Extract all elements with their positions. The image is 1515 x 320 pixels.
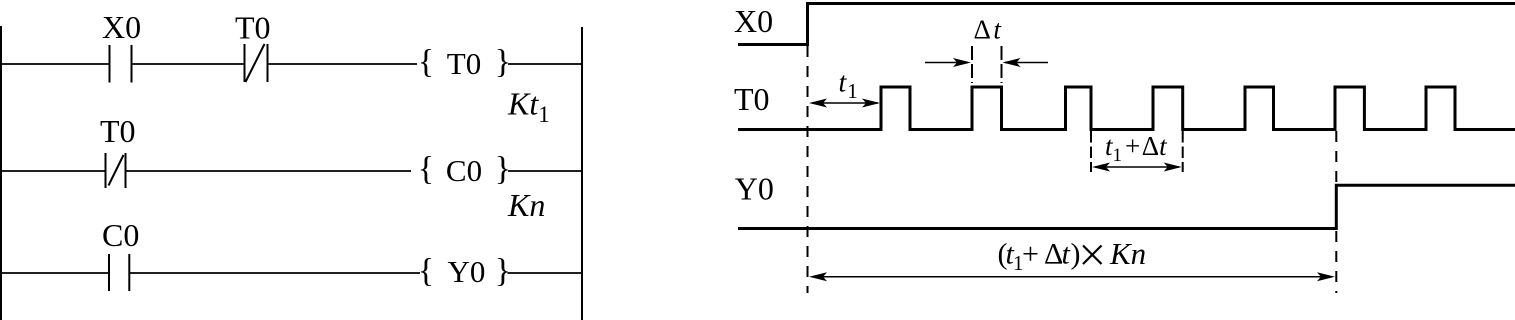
- svg-text:}: }: [495, 150, 511, 187]
- wire coil C0 to right rail: [508, 170, 582, 172]
- svg-text:Y0: Y0: [448, 254, 486, 289]
- left power rail: [0, 26, 2, 320]
- wire C0 to coil Y0: [129, 272, 420, 274]
- svg-text:{: {: [418, 44, 434, 81]
- dashed marker line at X0 rising edge: [807, 46, 809, 293]
- right power rail: [581, 27, 583, 320]
- arrow t1 (double headed): [809, 99, 880, 108]
- wire T0 contact to coil T0: [268, 63, 418, 65]
- dashed lines t1+dt period: [1090, 131, 1092, 172]
- svg-text:Kn: Kn: [1109, 236, 1146, 271]
- waveform Y0: [738, 185, 1515, 228]
- multiplication sign: [1083, 246, 1102, 265]
- contact T0 (NC) rung2: [105, 153, 107, 188]
- svg-text:X0: X0: [734, 3, 773, 39]
- svg-text:}: }: [495, 253, 511, 290]
- svg-text:}: }: [495, 44, 511, 81]
- svg-text:{: {: [418, 150, 434, 187]
- arrows delta-t (pointing inward): [925, 58, 1048, 67]
- wire rung1 rail to X0: [1, 63, 109, 65]
- wire X0 to T0 contact: [132, 63, 245, 65]
- svg-text:T0: T0: [447, 46, 481, 81]
- svg-text:Y0: Y0: [735, 171, 774, 207]
- dashed marker line at Y0 rising edge: [1335, 131, 1337, 293]
- arrow t1+dt (double headed): [1092, 163, 1182, 172]
- wire coil Y0 to right rail: [508, 272, 583, 274]
- contact X0 (NO): [109, 45, 111, 83]
- svg-text:T0: T0: [100, 113, 136, 149]
- wire coil T0 to right rail: [508, 63, 582, 65]
- svg-text:T0: T0: [734, 81, 770, 117]
- contact T0 (NC): [244, 44, 246, 82]
- svg-text:Kn: Kn: [507, 187, 545, 223]
- svg-text:C0: C0: [446, 153, 482, 188]
- wire rung2 rail to T0: [1, 170, 105, 172]
- arrow (t1+dt)xKn total time (double headed): [809, 272, 1335, 281]
- dashed lines delta-t pulse width: [971, 46, 973, 83]
- svg-text:Δt: Δt: [974, 14, 1003, 44]
- svg-text:{: {: [418, 253, 434, 290]
- svg-text:T0: T0: [235, 10, 271, 46]
- waveform X0: [738, 4, 1515, 45]
- svg-text:X0: X0: [102, 9, 141, 45]
- waveform T0 pulse train: [738, 87, 1515, 130]
- contact C0 (NO): [108, 254, 110, 291]
- wire rung3 rail to C0: [1, 272, 109, 274]
- wire T0 to coil C0: [126, 170, 412, 172]
- svg-text:C0: C0: [102, 217, 139, 253]
